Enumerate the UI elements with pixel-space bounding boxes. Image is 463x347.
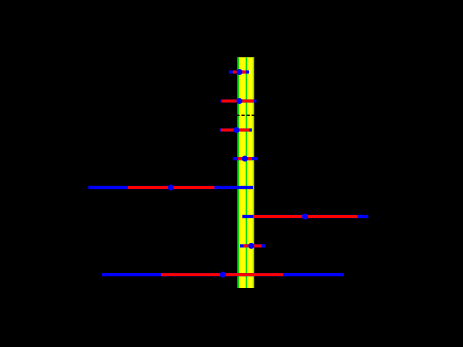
row 7 inner interval (red) [243, 244, 261, 247]
row 4 inner interval (red) [238, 157, 252, 160]
row 3 inner interval (red) [221, 129, 250, 132]
row 2 point marker [236, 98, 242, 104]
row 5 inner interval (red) [128, 186, 214, 189]
row 5 point marker [168, 185, 174, 191]
row 1 point marker [237, 69, 243, 75]
row 1 inner interval (red) [233, 71, 246, 74]
row 3 outer interval (blue) [220, 128, 252, 131]
row 3 point marker [234, 127, 240, 133]
row 8 outer interval (blue) [102, 273, 344, 276]
row 6 outer interval (blue) [242, 215, 368, 218]
row 6 inner interval (red) [253, 215, 358, 218]
row 6 point marker [302, 214, 308, 220]
row 1 outer interval (blue) [229, 70, 249, 73]
green band right edge line [252, 57, 254, 288]
row 4 outer interval (blue) [233, 157, 258, 160]
row 2 inner interval (red) [222, 100, 254, 103]
row 2 outer interval (blue) [220, 99, 256, 102]
yellow vertical band [237, 57, 254, 288]
row 7 outer interval (blue) [240, 244, 265, 247]
green band left edge line [237, 57, 239, 288]
black dashed line between rows 2 and 3 [236, 114, 254, 116]
row 8 inner interval (red) [161, 273, 283, 276]
row 4 point marker [242, 156, 248, 162]
row 7 point marker [248, 243, 254, 249]
row 5 outer interval (blue) [88, 186, 253, 189]
green center reference line [245, 57, 247, 288]
row 8 point marker [220, 272, 226, 278]
